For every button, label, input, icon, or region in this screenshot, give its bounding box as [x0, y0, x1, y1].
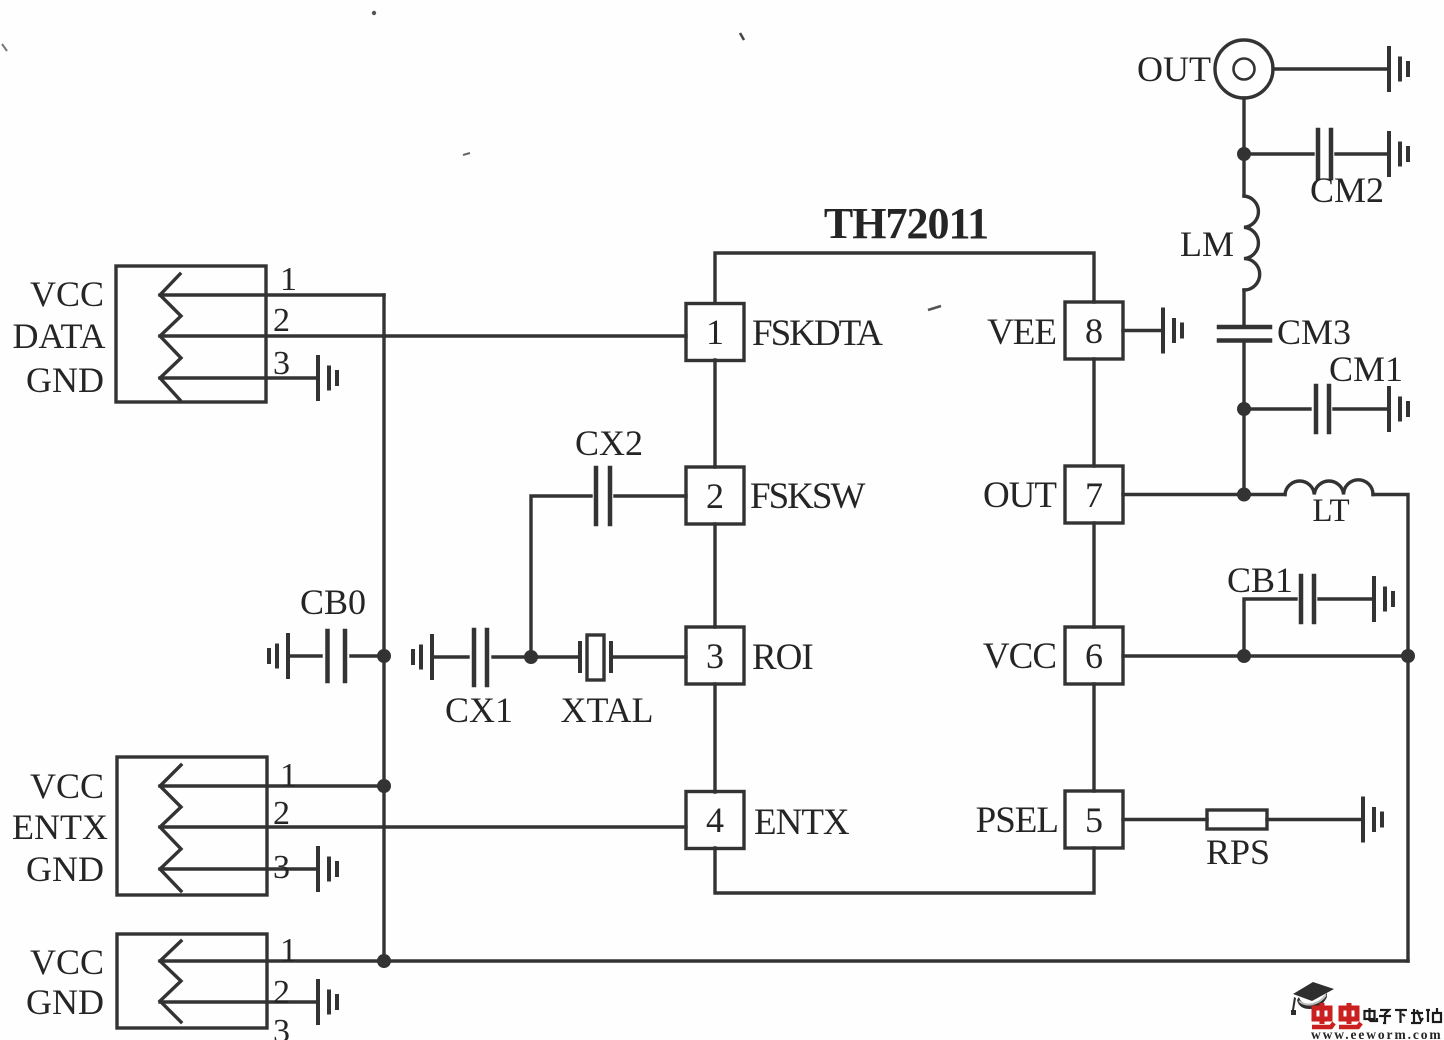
ground J3 pin2 [318, 981, 337, 1023]
pin 8 box [1065, 302, 1123, 359]
svg-text:CM3: CM3 [1277, 312, 1351, 352]
svg-text:CM1: CM1 [1329, 349, 1403, 389]
connector J2 body [117, 757, 267, 895]
svg-text:3: 3 [273, 345, 290, 382]
wire J1 pin2 DATA to IC pin1 [160, 334, 686, 337]
svg-text:1: 1 [280, 261, 297, 298]
svg-text:ENTX: ENTX [12, 807, 108, 847]
scan speck 3 [928, 306, 941, 310]
ground CB0 (left-pointing) [269, 635, 288, 677]
ground CM1 [1389, 388, 1408, 430]
IC U1 TH72011 top boundary [715, 253, 1094, 303]
svg-text:CX2: CX2 [575, 423, 643, 463]
connector J1 body [116, 266, 266, 402]
connector J2 zigzag contacts [160, 765, 181, 891]
connector J3 zigzag contacts [160, 941, 181, 1022]
svg-text:LM: LM [1180, 224, 1234, 264]
wire pin7-pin6 [1092, 523, 1095, 627]
capacitor CM2 [1244, 130, 1389, 178]
scan speck 4 [463, 153, 470, 155]
wire pin6-pin5 [1092, 684, 1095, 791]
svg-text:GND: GND [26, 360, 104, 400]
wire J1 pin3 to ground [160, 376, 318, 379]
svg-text:RPS: RPS [1206, 832, 1270, 872]
svg-text:GND: GND [26, 849, 104, 889]
svg-text:5: 5 [1085, 800, 1103, 840]
wire J2 pin2 ENTX to IC pin4 [160, 825, 686, 828]
svg-text:DATA: DATA [12, 316, 105, 356]
svg-text:4: 4 [706, 800, 724, 840]
ground CM2 [1389, 133, 1408, 175]
watermark 电子下载站 characters [1365, 1008, 1442, 1023]
ground CX1 (left-pointing) [413, 636, 432, 678]
svg-text:3: 3 [706, 636, 724, 676]
node CB0/bus junction [377, 649, 391, 663]
inductor LM [1244, 196, 1260, 290]
svg-text:ROI: ROI [752, 637, 813, 678]
node bus/bottom-bus junction [377, 954, 391, 968]
watermark graduation cap icon [1291, 982, 1334, 1015]
svg-text:CB1: CB1 [1227, 560, 1293, 600]
node CM2 junction [1237, 147, 1251, 161]
antenna connector OUT [1215, 40, 1273, 98]
svg-text:CX1: CX1 [445, 690, 513, 730]
pin 7 box [1065, 466, 1123, 523]
svg-text:VCC: VCC [983, 636, 1056, 677]
wire LT to right rail [1373, 495, 1408, 962]
node CM1 junction [1237, 402, 1251, 416]
pin 3 box [686, 627, 744, 684]
node pin7/LM branch junction [1237, 488, 1251, 502]
wire antenna down [1242, 98, 1245, 196]
svg-text:7: 7 [1085, 475, 1103, 515]
ground CB1 [1374, 578, 1393, 620]
node CX1/XTAL/CX2 junction [524, 650, 538, 664]
wire CM3 down [1242, 341, 1245, 495]
scan speck 5 [2, 44, 7, 51]
wire J2 pin3 to ground [160, 867, 318, 870]
wire pin6 VCC to right rail [1123, 654, 1408, 657]
svg-text:ENTX: ENTX [754, 802, 850, 843]
capacitor CX2 [531, 468, 686, 657]
svg-text:LT: LT [1312, 493, 1349, 529]
svg-text:2: 2 [273, 795, 290, 832]
svg-text:1: 1 [280, 932, 297, 969]
svg-text:3: 3 [273, 1013, 290, 1040]
svg-text:VCC: VCC [30, 942, 104, 982]
capacitor CM1 [1244, 386, 1389, 432]
capacitor CM3 [1219, 327, 1270, 341]
svg-text:1: 1 [706, 312, 724, 352]
IC U1 TH72011 bottom boundary [715, 848, 1094, 893]
wire LM to CM3 [1242, 290, 1245, 327]
ground VEE [1163, 310, 1182, 352]
pin 5 box [1065, 791, 1123, 848]
svg-text:OUT: OUT [983, 475, 1056, 516]
svg-text:GND: GND [26, 982, 104, 1022]
wire J3 pin2 to ground [160, 1000, 318, 1003]
svg-text:1: 1 [280, 757, 297, 794]
svg-text:2: 2 [273, 302, 290, 339]
svg-text:FSKSW: FSKSW [750, 476, 865, 517]
svg-text:CM2: CM2 [1310, 170, 1384, 210]
svg-text:VEE: VEE [987, 312, 1056, 353]
svg-text:2: 2 [273, 974, 290, 1011]
wire pin8-pin7 [1092, 359, 1095, 466]
wire J3 pin1 / bottom bus [160, 959, 1408, 962]
wire pin1-pin2 [713, 360, 716, 467]
node CB1 junction [1237, 649, 1251, 663]
capacitor CX1 [432, 630, 531, 685]
wire pin8 VEE to ground [1123, 329, 1163, 332]
pin 4 box [686, 792, 744, 849]
pin 1 box [686, 304, 744, 361]
wire RPS to ground [1267, 818, 1363, 821]
wire vertical bus [382, 295, 385, 961]
scan speck 1 [372, 11, 376, 15]
svg-text:VCC: VCC [30, 274, 104, 314]
resistor RPS [1207, 810, 1267, 829]
scan speck 2 [740, 33, 744, 40]
pin 6 box [1065, 627, 1123, 684]
svg-text:8: 8 [1085, 311, 1103, 351]
svg-text:FSKDTA: FSKDTA [752, 313, 883, 354]
ground antenna [1389, 48, 1408, 90]
node J2 pin1/bus junction [377, 779, 391, 793]
ground RPS [1363, 799, 1382, 841]
capacitor CB0 [288, 631, 384, 681]
svg-text:PSEL: PSEL [976, 800, 1058, 841]
node right rail junction [1401, 649, 1415, 663]
svg-text:2: 2 [706, 476, 724, 516]
wire pin7 to LT [1123, 493, 1285, 496]
svg-text:3: 3 [273, 849, 290, 886]
svg-text:VCC: VCC [30, 766, 104, 806]
wire pin5 to RPS [1123, 818, 1207, 821]
watermark 虫虫 red characters [1312, 1003, 1361, 1027]
ground J1 pin3 [318, 357, 337, 399]
svg-text:OUT: OUT [1137, 49, 1211, 89]
capacitor CB1 [1244, 576, 1374, 656]
wire J1 pin1 to bus [160, 293, 384, 296]
wire J2 pin1 to bus [160, 784, 384, 787]
ground J2 pin3 [318, 848, 337, 890]
svg-text:6: 6 [1085, 636, 1103, 676]
svg-text:TH72011: TH72011 [824, 199, 988, 248]
wire pin3-pin4 [713, 684, 716, 792]
wire pin2-pin3 [713, 524, 716, 627]
wire antenna to ground [1273, 67, 1389, 70]
svg-text:XTAL: XTAL [560, 690, 653, 730]
svg-text:CB0: CB0 [300, 582, 366, 622]
connector J1 zigzag contacts [160, 274, 181, 400]
connector J3 body [117, 934, 267, 1028]
pin 2 box [686, 467, 744, 524]
inductor LT [1285, 480, 1373, 495]
svg-text:www.eeworm.com: www.eeworm.com [1311, 1027, 1443, 1040]
crystal XTAL [531, 635, 686, 680]
